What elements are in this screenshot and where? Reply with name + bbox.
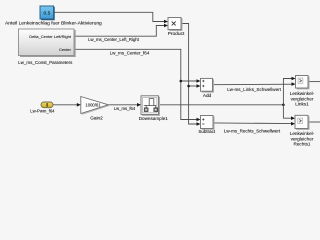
svg-text:Lw_ms_Center_Left_Right: Lw_ms_Center_Left_Right (88, 37, 140, 42)
wire branch up to Links comparator input 1 (283, 79, 294, 105)
svg-text:Anteil Lenkeinschlag fuer Blin: Anteil Lenkeinschlag fuer Blinker-Aktivi… (5, 21, 102, 27)
svg-text:Lenkwinkel-: Lenkwinkel- (290, 131, 315, 136)
svg-text:Lw-ms_Links_Schwellwert: Lw-ms_Links_Schwellwert (227, 87, 282, 92)
inport 1: Lw-Pwm_f64 (41, 102, 53, 108)
svg-text:Product: Product (168, 31, 185, 37)
wire: Delta_Center port to Product input 2 (74, 26, 167, 37)
wire branch: center to Add input 1 (181, 80, 199, 82)
svg-text:Rechts1: Rechts1 (293, 142, 310, 147)
comparator block Rechts (relational >) (295, 115, 309, 129)
product block U: Product (168, 18, 182, 31)
svg-text:Delta_Center Left/Right: Delta_Center Left/Right (29, 34, 72, 39)
arrowhead Links in1 (292, 77, 296, 81)
wire: constant 0.5 to Product input 1 (54, 12, 167, 21)
arrowhead Subtract in1 (197, 118, 201, 122)
wire: Links comparator output to edge (308, 81, 320, 83)
wire branch: product out to Add input 2 (189, 85, 199, 87)
svg-text:Center: Center (59, 47, 72, 52)
wire: Gain to Downsample (108, 104, 139, 106)
wire branch down to Rechts comparator input 1 (283, 105, 293, 118)
svg-text:0.5: 0.5 (43, 10, 50, 16)
arrowhead Downsample in (137, 103, 141, 107)
svg-text:Lw_ms_f64: Lw_ms_f64 (114, 106, 136, 111)
svg-text:Lw_ms_Center_f64: Lw_ms_Center_f64 (110, 50, 150, 55)
constant block 0.5 (40, 6, 54, 20)
arrowhead Add in1 (197, 79, 201, 83)
svg-text:Lw_ms_Const_Parameters: Lw_ms_Const_Parameters (18, 60, 73, 65)
arrowhead Rechts in2 (291, 122, 295, 126)
junction node at product vertical / add branch (187, 85, 190, 88)
arrowhead Product in2 (164, 24, 168, 28)
junction node Lw_ms_f64 branch (282, 104, 285, 107)
svg-text:Lw-ms_Rechts_Schwellwert: Lw-ms_Rechts_Schwellwert (224, 129, 281, 134)
junction node at center vertical / add branch (180, 80, 183, 83)
arrowhead Rechts in1 (291, 116, 295, 120)
arrowhead Gain in (77, 103, 81, 107)
downsample icon (144, 105, 156, 107)
svg-text:Lenkwinkel-: Lenkwinkel- (290, 91, 315, 96)
wire: Rechts comparator output to edge (308, 121, 320, 123)
wire: inport to Gain (53, 104, 78, 106)
wire: Subtract output to Rechts comparator input 2 (213, 122, 294, 125)
arrowhead Add in2 (197, 84, 201, 88)
svg-text:1000/61: 1000/61 (85, 102, 101, 107)
arrowhead Links in2 (292, 82, 296, 86)
arrowhead Product in1 (164, 20, 168, 24)
comparator block Links (relational >) (296, 76, 309, 89)
downsample block Downsample1 (141, 96, 159, 116)
canvas background (0, 0, 320, 149)
wire: Product output down to Subtract input 2 (181, 24, 199, 125)
svg-text:Add: Add (203, 93, 212, 98)
subsystem Lw_ms_Const_Parameters (19, 29, 76, 56)
svg-text:Lw-Pwm_f64: Lw-Pwm_f64 (30, 109, 55, 114)
svg-text:Gain2: Gain2 (90, 116, 103, 121)
wire: Center port down to Subtract input 1 (74, 49, 199, 119)
gain block Gain2 (81, 97, 109, 115)
wire: Downsample output to comparators (159, 104, 284, 106)
wire: Add output to Links comparator input 2 (213, 83, 295, 86)
subtract block Subtract (201, 116, 214, 130)
svg-text:Links1: Links1 (295, 102, 309, 107)
svg-text:Downsample1: Downsample1 (139, 116, 169, 121)
add block Add (201, 78, 214, 92)
svg-text:Subtract: Subtract (198, 129, 216, 134)
arrowhead Subtract in2 (197, 122, 201, 126)
